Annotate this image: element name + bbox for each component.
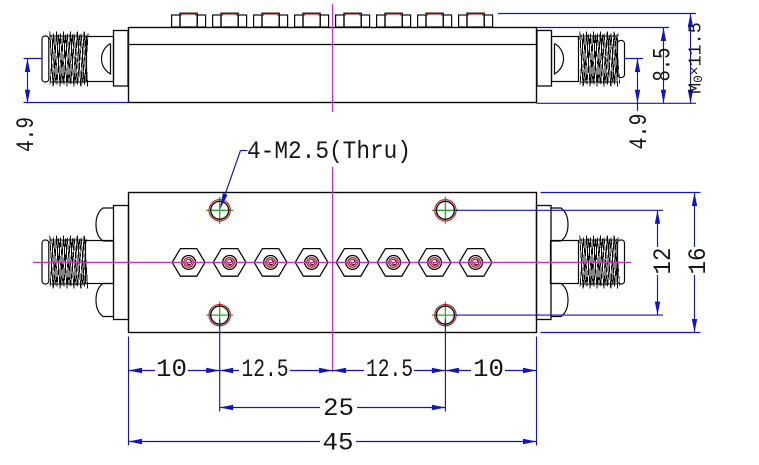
right flange bottom boss [551,284,569,317]
leader line for 4-M2.5(Thru) [241,150,248,152]
right SMA connector J2 cap [618,41,625,78]
tuning screw nut N4 (plan view) [295,249,328,277]
tuning screw TS2 (side view) [213,13,247,27]
right SMA connector J2 threads (plan) [580,239,618,241]
svg-text:25: 25 [323,394,354,423]
svg-text:10: 10 [156,355,187,384]
left SMA connector J1 dome [101,44,110,75]
dim 16: dimension line [694,193,696,248]
left flange bottom boss [96,284,114,317]
tuning screw TS8 (side view) [459,13,493,27]
tuning screw TS6 (side view) [377,13,411,27]
svg-text:10: 10 [473,355,504,384]
centerline (bottom view, vertical) [332,167,334,372]
right SMA connector J2 mid body (plan) [551,241,579,284]
extension line from body left edge [128,337,130,446]
dim M0x11.5: extension line at screw top [498,13,696,15]
dim 8.5: dimension line and arrows [663,28,665,104]
left SMA connector J1 threads (plan) [50,239,86,241]
svg-text:12: 12 [649,248,678,275]
tuning screw nut N5 (plan view) [336,249,369,277]
extension line from body right edge [536,337,538,446]
centerline (top view, vertical) [332,4,334,112]
top view body outline [129,28,537,103]
top view lid parting line [129,44,537,46]
right flange top boss [551,208,569,241]
mounting hole M2.5 at (219.7,315.1) [206,302,233,329]
left SMA connector J1 flange [114,31,129,87]
dim 4.9 right: extension line at centerline [625,58,644,60]
tuning screw nut N7 (plan view) [418,249,451,277]
dim 12: extension lines [456,209,664,211]
tuning screw nut N6 (plan view) [377,249,410,277]
tuning screw nut N8 (plan view) [459,249,492,277]
mounting hole M2.5 at (445.4,210.3) [432,197,459,224]
mounting hole M2.5 at (445.4,315.1) [432,302,459,329]
extension line from left hole column [219,320,221,412]
left SMA connector J1 cap [42,36,49,82]
svg-text:4.9: 4.9 [625,114,654,150]
tuning screw TS1 (side view) [172,13,206,27]
tuning screw nut N3 (plan view) [254,249,287,277]
dim M0x11.5: dimension line and arrows [690,14,692,104]
left flange top boss [96,208,114,241]
right SMA connector J2 dome [555,44,564,75]
left SMA connector J1 mid body [87,37,114,82]
tuning screw TS7 (side view) [418,13,452,27]
dim 4.9 left: dimension line and arrows [27,59,29,104]
svg-text:12.5: 12.5 [242,355,289,384]
left SMA connector J1 mid body (plan) [86,241,114,284]
svg-text:M0×11.5: M0×11.5 [686,22,707,94]
dim row 10 | 12.5 | 12.5 | 10 : line segments [129,370,156,372]
tuning screw nut N1 (plan view) [172,249,205,277]
tuning screw nut N2 (plan view) [213,249,246,277]
right SMA connector J2 flange [537,31,552,87]
svg-text:12.5: 12.5 [366,355,413,384]
dim 25: line segments [220,407,320,409]
mounting hole M2.5 at (219.7,210.3) [206,197,233,224]
extension line from right hole column [444,320,446,412]
svg-text:4-M2.5(Thru): 4-M2.5(Thru) [247,137,411,166]
tuning screw TS3 (side view) [254,13,288,27]
dim 8.5: extension lines [537,27,670,29]
right SMA connector J2 cap (plan) [618,240,625,284]
right SMA connector J2 mid body [552,37,579,82]
left SMA connector J1 flange (plan) [114,206,129,320]
dim 4.9 right: dimension line and arrows [637,59,639,112]
svg-text:8.5: 8.5 [649,48,678,82]
tuning screw TS5 (side view) [336,13,370,27]
right SMA connector J2 threads [580,35,618,37]
svg-text:4.9: 4.9 [12,117,41,152]
centerline (bottom view, horizontal) [33,261,631,263]
bottom view body outline [129,193,537,333]
left SMA connector J1 cap (plan) [42,240,49,284]
dim 16: extension lines [541,192,701,194]
svg-text:16: 16 [684,248,713,275]
dim 45: line segments [129,441,321,443]
dim 4.9 left: extension lines [24,58,43,60]
dim 12: dimension line [657,210,659,247]
right SMA connector J2 flange (plan) [537,206,552,320]
left SMA connector J1 threads [50,35,87,37]
tuning screw TS4 (side view) [295,13,329,27]
dim row arrows [129,368,143,373]
svg-text:45: 45 [323,429,354,458]
